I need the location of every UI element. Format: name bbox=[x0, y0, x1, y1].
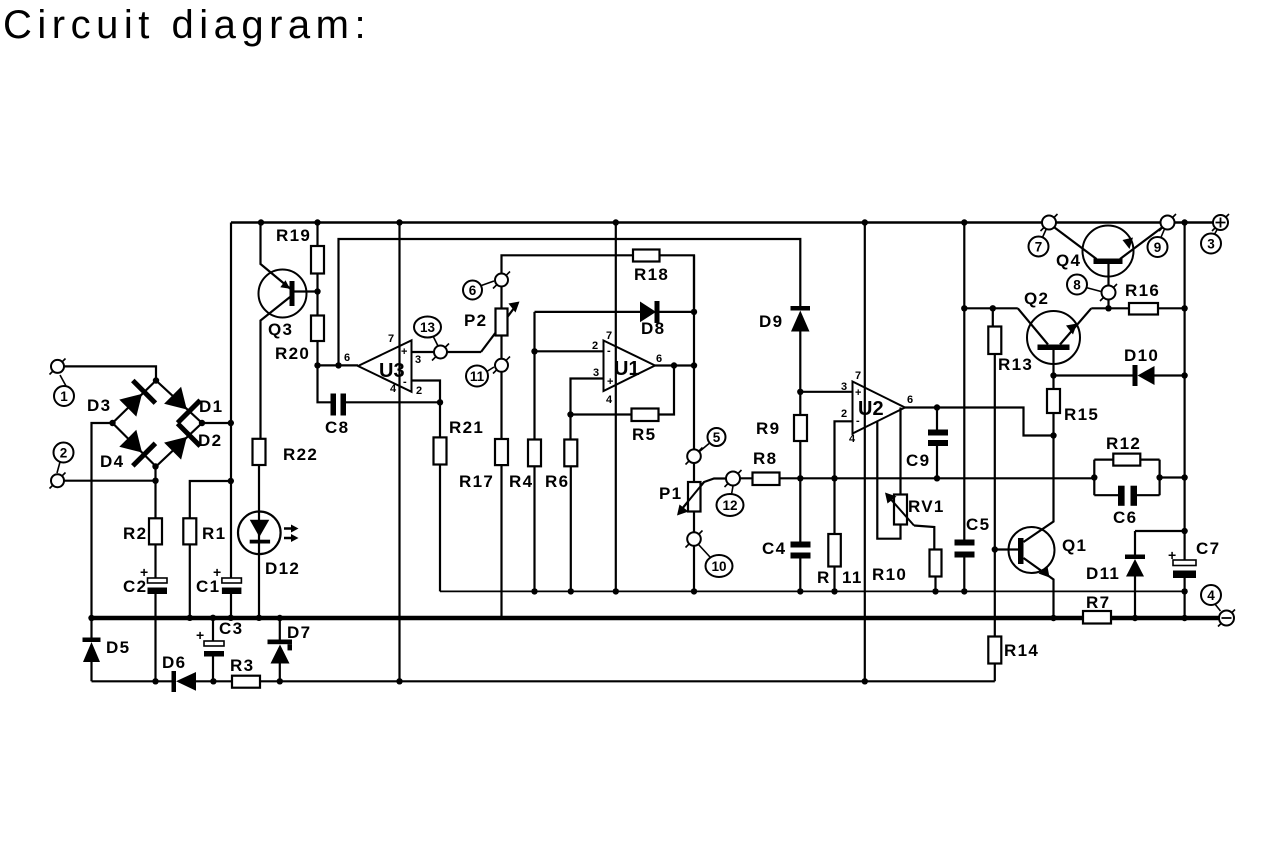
wire C8 left bbox=[318, 365, 331, 402]
leader line bbox=[433, 336, 438, 346]
wire R19 R20 chain bbox=[316, 223, 318, 366]
junction (399.5,222.5) bbox=[396, 219, 402, 225]
wire Q4 collector bbox=[1055, 228, 1097, 260]
wire Q3 emitter bbox=[261, 223, 291, 289]
junction (1135,618) bbox=[1132, 615, 1138, 621]
wire D8 line bbox=[535, 311, 695, 313]
wire R12 C6 block bbox=[1094, 460, 1184, 496]
svg-text:D9: D9 bbox=[759, 312, 783, 331]
junction (800.3,591.4) bbox=[797, 588, 803, 594]
svg-text:+: + bbox=[855, 387, 861, 399]
svg-text:+: + bbox=[140, 564, 148, 580]
diode D6 bbox=[172, 671, 177, 692]
svg-text:+: + bbox=[401, 346, 407, 358]
junction (800.3,478.3) bbox=[797, 475, 803, 481]
wire R1 branch bbox=[190, 481, 231, 618]
wire RV1 wiper to R10 bbox=[914, 526, 936, 592]
svg-text:P2: P2 bbox=[464, 311, 487, 330]
wire Q4 emitter bbox=[1120, 228, 1162, 260]
resistor R22 bbox=[253, 439, 266, 465]
wire U1 output bbox=[655, 364, 694, 366]
leader line bbox=[1215, 604, 1221, 612]
svg-text:R1: R1 bbox=[202, 524, 226, 543]
svg-text:R6: R6 bbox=[545, 472, 569, 491]
junction (279.8,618) bbox=[277, 615, 283, 621]
resistor R1 bbox=[183, 518, 196, 544]
leader line bbox=[486, 367, 494, 372]
svg-text:Q3: Q3 bbox=[268, 320, 293, 339]
wire D9 R9 C4 chain bbox=[799, 332, 801, 592]
capacitor C1 bbox=[222, 578, 242, 583]
svg-text:2: 2 bbox=[592, 340, 598, 352]
junction (189.8,617.8) bbox=[187, 615, 193, 621]
node 5 bbox=[708, 428, 726, 446]
wire U3 feedback up and right to D9 bbox=[339, 239, 801, 365]
svg-text:R21: R21 bbox=[449, 418, 484, 437]
capacitor C3 bbox=[204, 641, 224, 646]
node 1 bbox=[54, 386, 74, 406]
wire U1 plus bbox=[571, 379, 604, 415]
svg-text:-: - bbox=[607, 345, 611, 357]
svg-text:C3: C3 bbox=[219, 619, 243, 638]
resistor R18 bbox=[633, 250, 660, 262]
junction (994.8,549.5) bbox=[992, 546, 998, 552]
wire U3 output bbox=[318, 364, 359, 366]
wire output plus vertical x1185 bbox=[1183, 223, 1185, 619]
svg-text:4: 4 bbox=[390, 383, 397, 395]
svg-text:-: - bbox=[403, 376, 407, 388]
junction (800.3,391.8) bbox=[797, 389, 803, 395]
svg-text:1: 1 bbox=[60, 389, 68, 404]
led D12 bbox=[238, 512, 281, 555]
potentiometer P2 body bbox=[496, 309, 508, 336]
wire terminal2 bbox=[64, 480, 156, 482]
svg-text:4: 4 bbox=[1207, 588, 1215, 603]
svg-text:6: 6 bbox=[656, 353, 662, 365]
transistor Q2 bbox=[1027, 311, 1080, 364]
diode D2 bbox=[164, 437, 187, 460]
wire bridge left to bus corner bbox=[92, 423, 113, 618]
svg-text:+: + bbox=[1168, 547, 1176, 563]
svg-text:Circuit diagram:: Circuit diagram: bbox=[3, 3, 371, 47]
svg-text:3: 3 bbox=[593, 367, 599, 379]
svg-text:4: 4 bbox=[606, 394, 613, 406]
wire D10 line bbox=[1054, 374, 1185, 376]
transistor Q4 bbox=[1083, 226, 1134, 277]
arrow P2 bbox=[509, 302, 520, 313]
node 11 bbox=[466, 366, 488, 387]
wire P2 wiper diagonal bbox=[481, 306, 516, 353]
node 2 bbox=[54, 443, 74, 463]
resistor R17 bbox=[495, 439, 508, 465]
svg-text:D6: D6 bbox=[162, 653, 186, 672]
wire bridge diamond bbox=[113, 381, 203, 467]
svg-text:7: 7 bbox=[1035, 240, 1043, 255]
diode D11 bbox=[1125, 555, 1145, 560]
svg-text:R19: R19 bbox=[276, 226, 311, 245]
node 10 bbox=[706, 555, 733, 577]
op-amp U1 bbox=[604, 341, 656, 392]
junction (1053.5,618) bbox=[1050, 615, 1056, 621]
svg-text:R8: R8 bbox=[753, 449, 777, 468]
diode D10 bbox=[1138, 366, 1155, 385]
junction (261,222.5) bbox=[258, 219, 264, 225]
resistor R21 bbox=[434, 437, 447, 464]
wire R4 chain bbox=[533, 351, 535, 591]
svg-text:3: 3 bbox=[1207, 237, 1215, 252]
svg-text:C5: C5 bbox=[966, 515, 990, 534]
svg-text:R13: R13 bbox=[998, 355, 1033, 374]
svg-text:R2: R2 bbox=[123, 524, 147, 543]
terminal 10 bbox=[686, 531, 703, 548]
junction (155.5,681.3) bbox=[152, 678, 158, 684]
junction (317.5,365.4) bbox=[314, 362, 320, 368]
capacitor C6 bbox=[1118, 486, 1125, 506]
junction (1053.5,435.5) bbox=[1050, 432, 1056, 438]
junction (155.5,466.5) bbox=[152, 463, 158, 469]
diode D7 zener bbox=[268, 640, 293, 645]
svg-text:13: 13 bbox=[420, 320, 436, 335]
junction (864.8,222.5) bbox=[862, 219, 868, 225]
resistor R5 bbox=[632, 409, 659, 422]
svg-text:D1: D1 bbox=[199, 397, 223, 416]
resistor R15 bbox=[1047, 389, 1060, 413]
svg-text:U1: U1 bbox=[614, 358, 640, 380]
wire Q3 collector bbox=[261, 297, 291, 439]
wire y308 left segment bbox=[964, 307, 1018, 309]
capacitor C7 bbox=[1173, 560, 1196, 566]
arrow RV1 bbox=[888, 496, 915, 526]
terminal minus output bbox=[1218, 610, 1235, 627]
junction (112.5,423) bbox=[109, 420, 115, 426]
resistor R6 bbox=[564, 440, 577, 467]
junction (992.8,308.3) bbox=[990, 305, 996, 311]
wire ground bus thick bbox=[92, 616, 1220, 621]
wire RV1 bottom to U2 pin4 bbox=[877, 422, 900, 539]
diode D4 bbox=[119, 430, 142, 453]
arrow P1 bbox=[679, 482, 704, 513]
junction (91.5,618) bbox=[88, 615, 94, 621]
node 6 bbox=[463, 281, 482, 300]
svg-text:+: + bbox=[607, 376, 613, 388]
junction (937,407.5) bbox=[934, 404, 940, 410]
svg-text:P1: P1 bbox=[659, 484, 682, 503]
capacitor C4 bbox=[791, 542, 811, 548]
svg-text:6: 6 bbox=[907, 394, 913, 406]
junction (399.5,681.3) bbox=[396, 678, 402, 684]
diodes bbox=[83, 301, 1155, 692]
junction (1184.6,477.5) bbox=[1181, 474, 1187, 480]
junction (230.8,481) bbox=[228, 478, 234, 484]
diode D8 bbox=[640, 302, 656, 323]
diode D5 bbox=[83, 638, 101, 643]
wire Q2 emitter bbox=[1060, 308, 1091, 344]
node 8 bbox=[1067, 275, 1087, 295]
terminal 12 bbox=[725, 470, 742, 487]
junction (1108.5,308.3) bbox=[1105, 305, 1111, 311]
junction (155.5,480.7) bbox=[152, 478, 158, 484]
svg-text:R16: R16 bbox=[1125, 281, 1160, 300]
svg-text:D2: D2 bbox=[198, 431, 222, 450]
wire bridge bottom / R2 C2 chain bbox=[154, 467, 156, 682]
wire U2 minus and R11 chain bbox=[835, 421, 853, 591]
node 3 bbox=[1201, 234, 1221, 254]
junction (156,380.5) bbox=[153, 377, 159, 383]
wire y308 right segment R16 bbox=[1091, 307, 1184, 309]
svg-text:10: 10 bbox=[711, 559, 726, 574]
wire R5 line bbox=[571, 366, 675, 415]
resistor R9 bbox=[794, 415, 807, 441]
node 9 bbox=[1148, 237, 1168, 257]
wire R15 to Q1 collector bbox=[1024, 376, 1054, 543]
wire C5 chain bbox=[963, 223, 965, 592]
wire U1 supply vertical bbox=[615, 223, 617, 592]
resistor R4 bbox=[528, 440, 541, 467]
svg-text:9: 9 bbox=[1154, 240, 1162, 255]
wire R8 bbox=[740, 477, 800, 479]
wire R22 to D12 to bus bbox=[258, 465, 260, 618]
junction (534.5,351.3) bbox=[531, 348, 537, 354]
wire sense line y591 bbox=[440, 590, 1185, 592]
junction (964.3,308.3) bbox=[961, 305, 967, 311]
wire Q4 base bbox=[1107, 264, 1109, 308]
wire U1 output vertical to P1 bbox=[693, 255, 695, 591]
opamp names bbox=[379, 358, 884, 420]
wire U3 plus input to terminal 13 bbox=[412, 351, 482, 353]
svg-text:R7: R7 bbox=[1086, 593, 1110, 612]
junction (1184.6,591.4) bbox=[1181, 588, 1187, 594]
junction (570.5,414.5) bbox=[567, 411, 573, 417]
svg-text:2: 2 bbox=[60, 446, 68, 461]
svg-text:D12: D12 bbox=[265, 559, 300, 578]
wire U2 plus bbox=[800, 391, 852, 393]
svg-text:R20: R20 bbox=[275, 344, 310, 363]
svg-text:R3: R3 bbox=[230, 656, 254, 675]
resistor R16 bbox=[1129, 303, 1158, 315]
wire U3 minus input bbox=[412, 381, 441, 403]
svg-text:C8: C8 bbox=[325, 418, 349, 437]
junction (1184.6,375.5) bbox=[1181, 372, 1187, 378]
svg-text:7: 7 bbox=[855, 370, 861, 382]
svg-text:R14: R14 bbox=[1004, 641, 1039, 660]
junction (964.3,222.5) bbox=[961, 219, 967, 225]
wire D11 C7 link bbox=[1135, 531, 1185, 618]
junction (317.5,291.5) bbox=[314, 288, 320, 294]
terminal 2 bbox=[50, 473, 66, 489]
wire C9 branch bbox=[936, 408, 938, 479]
svg-text:3: 3 bbox=[841, 381, 847, 393]
svg-text:12: 12 bbox=[722, 498, 737, 513]
opamp pin labels bbox=[344, 330, 913, 445]
svg-text:R18: R18 bbox=[634, 265, 669, 284]
leader line bbox=[1214, 229, 1218, 235]
junction (338.5,365.4) bbox=[335, 362, 341, 368]
svg-text:R4: R4 bbox=[509, 472, 533, 491]
node 12 bbox=[717, 494, 744, 516]
capacitor C8 bbox=[331, 394, 337, 416]
svg-text:+: + bbox=[196, 627, 204, 643]
terminal 13 bbox=[432, 344, 449, 361]
junction (615.8,591.4) bbox=[613, 588, 619, 594]
terminal 6 bbox=[493, 272, 510, 289]
svg-text:D3: D3 bbox=[87, 396, 111, 415]
junction (864.8,681.3) bbox=[862, 678, 868, 684]
resistors bbox=[149, 246, 1158, 688]
circled numbers bbox=[54, 234, 1222, 606]
leader line bbox=[699, 545, 711, 558]
svg-text:R17: R17 bbox=[459, 472, 494, 491]
wire bottom rail bbox=[92, 680, 995, 682]
junction (694,311.9) bbox=[691, 309, 697, 315]
svg-text:3: 3 bbox=[415, 354, 421, 366]
junction (1184.6,308.3) bbox=[1181, 305, 1187, 311]
svg-text:R10: R10 bbox=[872, 565, 907, 584]
wire C3 bbox=[212, 618, 214, 682]
svg-text:Q2: Q2 bbox=[1024, 289, 1049, 308]
junction (213.4,681.3) bbox=[210, 678, 216, 684]
svg-text:2: 2 bbox=[841, 408, 847, 420]
resistor R20 bbox=[311, 316, 324, 342]
svg-text:D5: D5 bbox=[106, 638, 130, 657]
transistor Q1 bbox=[1009, 527, 1055, 573]
op-amp U2 bbox=[853, 382, 906, 434]
leader lines bbox=[57, 229, 1221, 612]
wire terminal1 to bridge top bbox=[64, 366, 156, 380]
svg-text:R5: R5 bbox=[632, 425, 656, 444]
junction (694,591.4) bbox=[691, 588, 697, 594]
wire Q3 base bbox=[295, 290, 318, 292]
junction (615.8,222.5) bbox=[613, 219, 619, 225]
junction (674,365.5) bbox=[671, 362, 677, 368]
resistor R11 bbox=[828, 534, 841, 567]
opamps bbox=[358, 340, 905, 433]
capacitor C2 bbox=[148, 578, 168, 583]
capacitors bbox=[148, 394, 1197, 657]
wire R13 R14 vertical bbox=[993, 308, 995, 681]
junction (230.8,423) bbox=[228, 420, 234, 426]
svg-text:-: - bbox=[856, 415, 860, 427]
node 13 bbox=[414, 317, 441, 338]
transistor Q3 bbox=[259, 270, 307, 318]
svg-text:D10: D10 bbox=[1124, 346, 1159, 365]
wire RV1 top bbox=[899, 408, 901, 495]
junction (1053.5,375.5) bbox=[1050, 372, 1056, 378]
svg-text:6: 6 bbox=[344, 352, 350, 364]
op-amp U3 bbox=[358, 340, 412, 392]
svg-text:D4: D4 bbox=[100, 452, 124, 471]
svg-text:7: 7 bbox=[388, 333, 394, 345]
node 7 bbox=[1029, 237, 1049, 257]
wire mid horizontal rail y478 bbox=[800, 477, 1094, 479]
svg-text:U3: U3 bbox=[379, 360, 405, 382]
junction (213,617.8) bbox=[210, 615, 216, 621]
svg-text:8: 8 bbox=[1073, 278, 1081, 293]
resistor R14 bbox=[988, 637, 1001, 664]
svg-text:+: + bbox=[213, 564, 221, 580]
svg-text:D8: D8 bbox=[641, 319, 665, 338]
wire P2 top to R18 to D8 node bbox=[502, 255, 695, 312]
terminal circles bbox=[50, 214, 1236, 627]
svg-text:R12: R12 bbox=[1106, 434, 1141, 453]
junction (570.8,591.4) bbox=[568, 588, 574, 594]
resistor R12 bbox=[1113, 454, 1140, 466]
leader line bbox=[57, 462, 60, 473]
diode D9 bbox=[791, 306, 811, 311]
wire top bus bbox=[231, 221, 1213, 223]
terminal 7 bbox=[1041, 214, 1058, 231]
svg-text:11: 11 bbox=[470, 369, 485, 384]
junction (834.5,591.4) bbox=[831, 588, 837, 594]
junction (259,617.8) bbox=[256, 615, 262, 621]
junction (1184.6,618) bbox=[1181, 615, 1187, 621]
leader line bbox=[1161, 229, 1165, 239]
svg-text:C7: C7 bbox=[1196, 539, 1220, 558]
svg-text:U2: U2 bbox=[858, 398, 884, 420]
capacitor C9 bbox=[928, 430, 948, 436]
node 4 bbox=[1201, 585, 1221, 605]
wire D5 bbox=[90, 618, 92, 681]
junction (834.5,478.3) bbox=[831, 475, 837, 481]
wire left rail bbox=[230, 223, 232, 618]
wire U2 supply vertical bbox=[864, 223, 866, 682]
junction (534.5,591.4) bbox=[531, 588, 537, 594]
svg-text:4: 4 bbox=[849, 433, 856, 445]
wire P2 sections bbox=[500, 287, 502, 440]
diode D1 bbox=[164, 387, 187, 410]
junction (1159.6,477.5) bbox=[1156, 474, 1162, 480]
svg-text:C4: C4 bbox=[762, 539, 786, 558]
wire Q2 collector bbox=[1018, 308, 1048, 344]
leader line bbox=[480, 281, 494, 286]
wire U2 output to Q1 collector node bbox=[905, 408, 1054, 436]
junction (230.8,617.8) bbox=[228, 615, 234, 621]
leader line bbox=[700, 444, 710, 452]
junction (279.8,681.3) bbox=[277, 678, 283, 684]
terminal 9 bbox=[1159, 214, 1176, 231]
junction (1184.6,222.5) bbox=[1181, 219, 1187, 225]
wire C8 right to R21 node bbox=[346, 401, 440, 403]
wire D7 bbox=[279, 618, 281, 681]
junction (964.3,591.4) bbox=[961, 588, 967, 594]
terminal 11 bbox=[493, 357, 510, 374]
wire Q2 base to D10 R15 bbox=[1052, 350, 1054, 376]
junction (1184.6,531) bbox=[1181, 528, 1187, 534]
svg-text:C6: C6 bbox=[1113, 508, 1137, 527]
svg-text:R: R bbox=[817, 568, 831, 587]
svg-text:R9: R9 bbox=[756, 419, 780, 438]
svg-text:R15: R15 bbox=[1064, 405, 1099, 424]
junction (937,478.3) bbox=[934, 475, 940, 481]
svg-text:11: 11 bbox=[842, 568, 863, 587]
capacitor C5 bbox=[955, 540, 975, 546]
resistor R10 bbox=[930, 550, 942, 577]
diode D3 bbox=[119, 394, 142, 417]
junction (202,423) bbox=[199, 420, 205, 426]
junction (1094.3,477.5) bbox=[1091, 474, 1097, 480]
leader line bbox=[60, 375, 66, 386]
resistor R8 bbox=[753, 473, 780, 486]
wire Q1 emitter bbox=[1024, 558, 1054, 618]
resistor R7 bbox=[1083, 611, 1111, 624]
wire R6 chain bbox=[569, 415, 571, 592]
svg-text:RV1: RV1 bbox=[908, 497, 945, 516]
transistors bbox=[259, 226, 1134, 578]
junction (694,365.5) bbox=[691, 362, 697, 368]
pot arrows bbox=[509, 302, 915, 526]
resistor R3 bbox=[232, 676, 260, 688]
terminal 1 bbox=[50, 359, 66, 375]
svg-text:5: 5 bbox=[713, 430, 721, 445]
